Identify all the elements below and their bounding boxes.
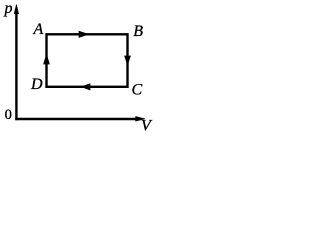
svg-text:C: C bbox=[132, 82, 143, 99]
svg-text:0: 0 bbox=[5, 107, 12, 123]
svg-text:A: A bbox=[33, 21, 44, 38]
svg-text:B: B bbox=[133, 23, 143, 40]
svg-text:D: D bbox=[30, 76, 43, 93]
svg-text:p: p bbox=[4, 0, 13, 17]
